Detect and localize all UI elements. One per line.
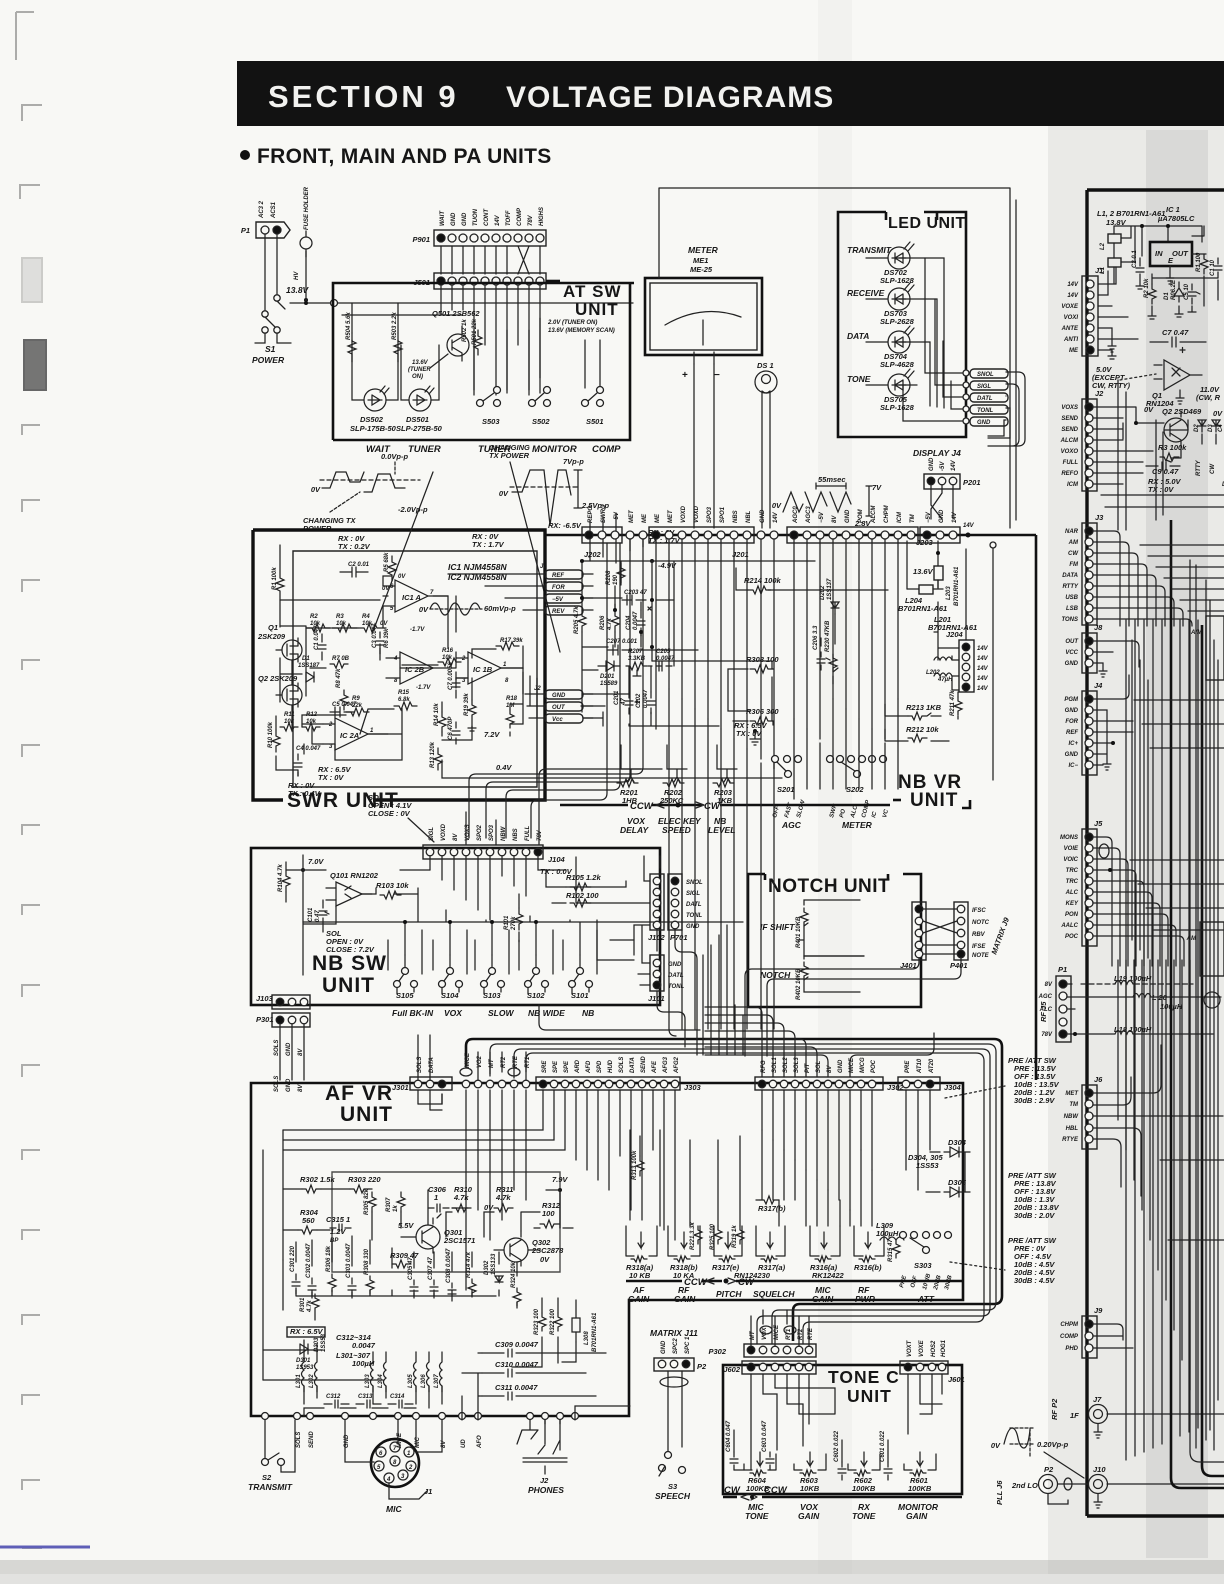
resistor R18 1M <box>506 696 518 728</box>
svg-text:ME: ME <box>642 513 648 523</box>
svg-text:IF SHIFT: IF SHIFT <box>760 922 795 932</box>
potentiometer R602 RX TONE <box>848 1452 880 1493</box>
svg-text:NOTC: NOTC <box>972 920 990 926</box>
connector P701 <box>668 874 703 942</box>
capacitor C205 0.0047 <box>656 649 675 671</box>
connector J202 <box>582 504 622 543</box>
svg-text:GND: GND <box>929 457 935 471</box>
coax jack J7 <box>1050 1395 1224 1438</box>
wire 13.8V rail <box>1114 224 1202 283</box>
LED DS704 DATA <box>847 326 930 406</box>
svg-text:PWR: PWR <box>855 1294 876 1304</box>
svg-text:R102 100: R102 100 <box>566 891 599 900</box>
partial circle right edge <box>1204 992 1220 1008</box>
svg-text:RK12422: RK12422 <box>812 1271 845 1280</box>
IF SHIFT label <box>760 922 795 932</box>
svg-text:TX : 0V: TX : 0V <box>736 729 762 738</box>
resistor R503 2.2k <box>392 312 402 362</box>
svg-text:ICM: ICM <box>897 511 903 523</box>
svg-text:SEND: SEND <box>1061 416 1078 422</box>
svg-text:8V: 8V <box>832 515 838 523</box>
capacitor C311 0.0047 <box>482 1383 596 1400</box>
partial component box right edge B <box>1186 922 1224 976</box>
svg-text:C7 0.47: C7 0.47 <box>1162 328 1189 337</box>
svg-text:C1 0.047: C1 0.047 <box>314 625 320 650</box>
resistor R3 10k <box>332 614 357 632</box>
svg-text:AFO: AFO <box>477 1435 483 1449</box>
svg-text:TRC: TRC <box>1066 879 1079 885</box>
FET Q1 2SK209 <box>257 623 302 662</box>
svg-text:GND: GND <box>462 212 468 226</box>
potentiometer R604 MIC TONE <box>744 1452 776 1493</box>
capacitor C2 0.1 <box>1132 250 1144 289</box>
svg-text:PLL J6: PLL J6 <box>995 1480 1004 1505</box>
svg-text:J7: J7 <box>1093 1395 1102 1404</box>
svg-text:MATRIX J11: MATRIX J11 <box>650 1328 698 1338</box>
svg-text:R401 10KB: R401 10KB <box>796 916 802 948</box>
svg-text:Q101 RN1202: Q101 RN1202 <box>330 871 379 880</box>
svg-text:C207 0.001: C207 0.001 <box>606 639 638 645</box>
svg-text:IC−: IC− <box>1068 763 1078 769</box>
svg-text:TONE: TONE <box>852 1511 876 1521</box>
waveform changing TX power (middle) <box>489 443 610 652</box>
svg-text:8V: 8V <box>453 833 459 841</box>
svg-text:AALC: AALC <box>1060 923 1078 929</box>
svg-text:TRANSMIT: TRANSMIT <box>847 245 892 255</box>
diodes D304 D305 <box>908 1138 970 1197</box>
svg-text:IC 2A: IC 2A <box>340 731 359 740</box>
AT SW internal wires <box>342 285 540 395</box>
svg-text:2: 2 <box>408 1465 413 1471</box>
svg-text:78V: 78V <box>537 829 543 841</box>
svg-text:SLOW: SLOW <box>488 1008 514 1018</box>
svg-text:C4: C4 <box>1218 424 1224 432</box>
svg-text:VOXO: VOXO <box>1061 449 1079 455</box>
svg-text:R211 47k: R211 47k <box>950 690 956 716</box>
svg-text:P901: P901 <box>412 235 430 244</box>
svg-text:S102: S102 <box>527 991 545 1000</box>
svg-text:14V: 14V <box>773 511 779 523</box>
potentiometer R601 MONITOR GAIN <box>904 1452 936 1493</box>
svg-text:SPE: SPE <box>564 1060 570 1073</box>
svg-text:MET: MET <box>629 509 635 523</box>
svg-text:R230 47KB: R230 47KB <box>825 620 831 652</box>
svg-text:AM: AM <box>1068 540 1079 546</box>
note RX TX <box>1148 477 1182 494</box>
svg-text:0V: 0V <box>398 574 406 580</box>
LED UNIT box <box>838 212 966 437</box>
svg-text:(TUNER: (TUNER <box>408 367 431 373</box>
svg-text:R503 2.2k: R503 2.2k <box>392 312 398 340</box>
svg-text:B701RN1-A61: B701RN1-A61 <box>954 566 960 606</box>
svg-text:PGM: PGM <box>1064 697 1079 703</box>
wire J101 route <box>539 1005 700 1030</box>
connector P2 (matrix J11) <box>654 1336 707 1451</box>
svg-text:P401: P401 <box>950 961 968 970</box>
svg-text:1F: 1F <box>1070 1411 1079 1420</box>
capacitor C306 1 <box>428 1185 449 1218</box>
svg-text:VOXS: VOXS <box>1061 405 1078 411</box>
svg-text:NOTE: NOTE <box>972 953 990 959</box>
svg-text:ANTI: ANTI <box>1063 337 1078 343</box>
op-amp IC1A <box>383 574 448 612</box>
svg-text:D1: D1 <box>1164 292 1170 300</box>
MIC connector J1 <box>345 1420 442 1514</box>
svg-text:SPEECH: SPEECH <box>655 1491 691 1501</box>
svg-text:C314: C314 <box>390 1394 405 1400</box>
svg-text:S503: S503 <box>482 417 500 426</box>
svg-text:AFG3: AFG3 <box>663 1056 669 1074</box>
diodes D2 D3 <box>1194 420 1224 432</box>
connector P201 <box>924 457 981 489</box>
svg-text:0V: 0V <box>311 485 321 494</box>
svg-text:60mVp-p: 60mVp-p <box>484 604 516 613</box>
wire weave J201 row to J104 <box>466 539 662 903</box>
svg-text:R301: R301 <box>300 1297 306 1312</box>
svg-text:R205 4.7k: R205 4.7k <box>574 606 580 634</box>
svg-text:SPO3: SPO3 <box>489 824 495 841</box>
svg-text:14V: 14V <box>951 459 957 471</box>
svg-text:UNIT: UNIT <box>340 1103 393 1126</box>
svg-text:47µH: 47µH <box>937 677 953 683</box>
resistor R305 82k <box>364 1188 376 1215</box>
svg-text:R325 100: R325 100 <box>710 1223 716 1250</box>
connector J501 <box>413 273 560 289</box>
pointer line changing TX <box>372 472 433 634</box>
connector J602 <box>723 1361 816 1374</box>
svg-text:GND: GND <box>845 509 851 523</box>
svg-text:GND: GND <box>686 924 700 930</box>
svg-text:TONE: TONE <box>847 374 871 384</box>
svg-text:SPEED: SPEED <box>662 825 691 835</box>
svg-text:GND: GND <box>451 212 457 226</box>
svg-text:HOG1: HOG1 <box>941 1339 947 1357</box>
inductor L201 coil <box>926 657 959 683</box>
svg-text:DELAY: DELAY <box>620 825 650 835</box>
svg-text:VOXE: VOXE <box>1061 304 1079 310</box>
svg-text:4: 4 <box>386 1477 391 1483</box>
right column extra bus lines <box>1101 380 1224 1448</box>
svg-text:8V: 8V <box>1045 982 1053 988</box>
connector J3 <box>1061 513 1192 626</box>
svg-text:14V: 14V <box>977 686 989 692</box>
svg-text:DATL: DATL <box>686 902 702 908</box>
bottom caps row (C301 C302 R306 C303 C304 R308 R309) <box>290 1243 521 1306</box>
svg-text:GAIN: GAIN <box>906 1511 928 1521</box>
svg-text:J2: J2 <box>534 686 541 692</box>
potentiometer R317(e) PITCH <box>712 1226 771 1280</box>
switch S502 <box>529 318 551 426</box>
svg-text:L1, 2 B701RN1-A61: L1, 2 B701RN1-A61 <box>1097 209 1165 218</box>
transistor Q501 2SB562 <box>432 309 480 361</box>
svg-text:SRE: SRE <box>542 1060 548 1073</box>
resistors R323 R322 100 <box>534 1308 562 1335</box>
capacitor C604 0.047 <box>726 1420 744 1470</box>
svg-text:SLP-2628: SLP-2628 <box>880 317 915 326</box>
bus wire loop right of AF VR <box>466 1039 1002 1344</box>
capacitor C202 0.0047 <box>636 689 655 714</box>
svg-text:R213 1KB: R213 1KB <box>906 703 942 712</box>
waveform 55msec (right) <box>772 475 882 528</box>
diode D201 1S589 <box>598 661 620 687</box>
svg-text:PHD: PHD <box>1065 1346 1078 1352</box>
svg-text:CLOSE : 0V: CLOSE : 0V <box>368 809 411 818</box>
svg-text:RX : 6.5V: RX : 6.5V <box>290 1327 324 1336</box>
capacitor C101 0.47 <box>308 902 329 924</box>
svg-text:4.7k: 4.7k <box>453 1193 469 1202</box>
AT SW UNIT box <box>333 282 634 440</box>
svg-text:PITCH: PITCH <box>716 1289 742 1299</box>
svg-text:GND: GND <box>286 1042 292 1056</box>
svg-text:14V: 14V <box>495 214 501 226</box>
svg-text:C312: C312 <box>326 1394 341 1400</box>
svg-text:GND: GND <box>1065 708 1079 714</box>
svg-text:190: 190 <box>613 574 619 585</box>
capacitor C603 0.047 <box>762 1420 774 1470</box>
potentiometer R317(a) SQUELCH <box>756 1226 786 1272</box>
resistor R1 100k <box>272 545 284 627</box>
svg-text:C302 0.0047: C302 0.0047 <box>306 1243 312 1278</box>
svg-text:POC: POC <box>1065 934 1079 940</box>
zener D1 R06.2E <box>1164 279 1184 302</box>
resistor R208 190 <box>606 563 625 585</box>
connector P401 <box>950 902 968 970</box>
resistor R101 270k <box>504 908 523 931</box>
SWR output tags REF FOR -5V REV <box>448 564 593 615</box>
resistor R9 22k <box>346 696 369 716</box>
LED DS501 <box>396 345 443 433</box>
svg-text:SWRO: SWRO <box>601 504 607 523</box>
wire P1 to S1 <box>265 234 277 310</box>
svg-text:CW: CW <box>1068 551 1079 557</box>
svg-text:NB: NB <box>582 1008 594 1018</box>
svg-text:−5V: −5V <box>819 511 825 523</box>
svg-text:GND: GND <box>661 1340 667 1354</box>
svg-text:AF VR: AF VR <box>325 1082 393 1105</box>
svg-text:J1: J1 <box>540 564 547 570</box>
svg-text:R15: R15 <box>398 690 410 696</box>
SOL note top <box>368 793 434 842</box>
SWR internal wiring mesh <box>276 576 782 778</box>
svg-text:J2: J2 <box>1095 389 1104 398</box>
svg-text:ARD: ARD <box>575 1059 581 1074</box>
resistor R205 4.7k <box>574 606 586 634</box>
svg-text:30dB : 4.5V: 30dB : 4.5V <box>1014 1276 1055 1285</box>
AF VR internal vertical wires from rows <box>263 1090 930 1380</box>
svg-text:TX : 0.4V: TX : 0.4V <box>288 789 321 798</box>
J2 wires <box>1093 407 1216 484</box>
resistor R312 100 <box>540 1201 561 1228</box>
AF VR mid mesh wires <box>283 1189 573 1308</box>
svg-text:100: 100 <box>542 1209 555 1218</box>
bottom pin labels <box>296 1431 483 1449</box>
svg-text:VOIC: VOIC <box>1063 857 1078 863</box>
svg-text:1: 1 <box>434 1193 438 1202</box>
svg-text:DATA: DATA <box>847 331 869 341</box>
svg-text:AGC: AGC <box>781 820 802 830</box>
resistor R310 4.7k <box>452 1185 473 1212</box>
svg-text:OUT: OUT <box>1065 639 1079 645</box>
svg-text:S2: S2 <box>262 1473 272 1482</box>
svg-text:250KC: 250KC <box>659 796 684 805</box>
svg-text:C1 10: C1 10 <box>1210 259 1216 276</box>
resistor R3 100k <box>1158 443 1187 461</box>
connector P901 <box>412 207 546 246</box>
svg-text:NOTCH UNIT: NOTCH UNIT <box>768 876 890 897</box>
svg-text:OUT: OUT <box>1172 249 1189 258</box>
resistor R302 1.5k <box>300 1175 335 1193</box>
svg-text:13.6V (MEMORY SCAN): 13.6V (MEMORY SCAN) <box>548 328 615 334</box>
resistor R504 5.6k <box>346 312 356 362</box>
LED DS702 TRANSMIT <box>847 242 944 408</box>
svg-text:C4 0.047: C4 0.047 <box>296 746 321 752</box>
svg-text:µA7805LC: µA7805LC <box>1157 214 1195 223</box>
capacitor C310 0.0047 <box>482 1360 586 1377</box>
svg-text:C6 470P: C6 470P <box>448 716 454 740</box>
svg-text:R105 1.2k: R105 1.2k <box>566 873 601 882</box>
svg-text:FOR: FOR <box>552 585 565 591</box>
diode D1 1SS187 <box>298 656 320 682</box>
svg-text:IFSC: IFSC <box>972 908 986 914</box>
connector P301 <box>256 1013 310 1092</box>
inductor L2 <box>1100 234 1121 250</box>
svg-text:TUON: TUON <box>473 208 479 226</box>
svg-text:C206 3.3: C206 3.3 <box>813 625 819 650</box>
svg-text:AFG2: AFG2 <box>674 1056 680 1074</box>
svg-text:S104: S104 <box>441 991 459 1000</box>
svg-text:SIGL: SIGL <box>977 384 991 390</box>
wires P901 to J501 with crossover <box>441 246 540 274</box>
capacitor C3 0.047 <box>372 623 390 654</box>
inductor L306 <box>421 1352 429 1392</box>
svg-text:J103: J103 <box>256 994 274 1003</box>
svg-text:Vcc: Vcc <box>552 717 563 723</box>
svg-text:R502 1k: R502 1k <box>462 319 468 342</box>
svg-text:GND: GND <box>838 1059 844 1073</box>
fuse holder F1 <box>286 186 312 302</box>
svg-text:C2 0.1: C2 0.1 <box>1132 250 1138 268</box>
svg-text:D202: D202 <box>820 585 826 600</box>
svg-text:RF P2: RF P2 <box>1050 1398 1059 1420</box>
label L201 <box>928 615 977 632</box>
svg-text:CW: CW <box>724 1485 741 1496</box>
wire fuse to AT SW unit <box>290 251 633 307</box>
potentiometer R201 1HB <box>617 745 641 805</box>
svg-text:ALCM: ALCM <box>871 505 877 524</box>
connector J203b <box>920 509 960 543</box>
potentiometer R318(a) AF GAIN <box>626 1226 657 1280</box>
resistor R230 47KB <box>825 620 838 672</box>
svg-text:R2: R2 <box>310 614 318 620</box>
connector J304 <box>898 1058 962 1092</box>
svg-text:J602: J602 <box>723 1365 741 1374</box>
svg-text:RTTY: RTTY <box>1062 584 1079 590</box>
svg-text:IC 1B: IC 1B <box>473 665 493 674</box>
svg-text:S502: S502 <box>532 417 550 426</box>
svg-text:AT20: AT20 <box>929 1058 935 1074</box>
svg-text:UNIT: UNIT <box>910 790 958 811</box>
svg-text:30dB : 2.0V: 30dB : 2.0V <box>1014 1211 1055 1220</box>
svg-text:S3: S3 <box>668 1482 678 1491</box>
svg-text:NBL: NBL <box>746 510 752 523</box>
svg-text:R19 39k: R19 39k <box>464 693 470 716</box>
svg-text:CLOSE : 7.2V: CLOSE : 7.2V <box>326 945 375 954</box>
svg-text:TM: TM <box>910 513 916 523</box>
svg-text:TX : 0V: TX : 0V <box>1148 485 1174 494</box>
svg-text:AFD: AFD <box>586 1060 592 1074</box>
PRE/ATT SW note 1 <box>945 1056 1060 1105</box>
svg-text:TONL: TONL <box>977 408 994 414</box>
TONE C bottom labels <box>745 1502 939 1521</box>
svg-text:−5V: −5V <box>614 511 620 523</box>
transistor Q2 2SD469 <box>1144 405 1223 446</box>
svg-text:TONE: TONE <box>745 1511 769 1521</box>
inductor L301 <box>296 1352 304 1392</box>
svg-text:FM: FM <box>1069 562 1079 568</box>
svg-text:IC+: IC+ <box>1068 741 1078 747</box>
svg-text:C309 0.0047: C309 0.0047 <box>495 1340 539 1349</box>
svg-text:J301: J301 <box>392 1083 409 1092</box>
svg-text:C2 0.01: C2 0.01 <box>348 562 370 568</box>
AF VR inner board outline <box>332 1172 560 1272</box>
svg-text:IC 2B: IC 2B <box>405 665 425 674</box>
svg-text:14V: 14V <box>977 646 989 652</box>
note 5.5V <box>398 1221 414 1230</box>
svg-text:ANTE: ANTE <box>1061 326 1079 332</box>
resistor R13 120k <box>430 741 442 770</box>
note 5.0V except <box>1092 365 1156 390</box>
svg-text:7Vp-p: 7Vp-p <box>563 457 584 466</box>
svg-text:SLP-4628: SLP-4628 <box>880 360 915 369</box>
power mesh wires <box>1148 226 1218 319</box>
svg-text:-1.7V: -1.7V <box>416 685 431 691</box>
svg-text:−5V: −5V <box>926 511 932 523</box>
svg-text:GND: GND <box>977 420 991 426</box>
LED DS703 RECEIVE <box>847 283 937 407</box>
pins GND 14V <box>757 509 779 539</box>
transistor Q302 2SC2878 <box>504 1231 564 1266</box>
svg-text:14V: 14V <box>952 511 958 523</box>
svg-text:C315 1: C315 1 <box>326 1215 350 1224</box>
svg-text:IC 1: IC 1 <box>1166 205 1180 214</box>
resistor R19 39k <box>464 693 476 731</box>
svg-text:C601 0.022: C601 0.022 <box>880 1430 886 1462</box>
capacitor C7 0.0056 <box>448 662 460 698</box>
svg-text:FULL: FULL <box>1063 460 1079 466</box>
svg-text:GAIN: GAIN <box>798 1511 820 1521</box>
S201/S202 position labels <box>772 798 890 819</box>
svg-text:14V: 14V <box>1067 293 1079 299</box>
svg-text:(CW, R: (CW, R <box>1196 393 1221 402</box>
svg-text:R10 100k: R10 100k <box>268 721 274 748</box>
svg-text:UD: UD <box>461 1439 467 1448</box>
resistor R325 100 <box>710 1223 722 1250</box>
svg-text:R307: R307 <box>386 1197 392 1212</box>
svg-text:SEND: SEND <box>309 1431 315 1448</box>
svg-text:GND: GND <box>760 509 766 523</box>
NB SW bottom labels <box>392 1008 594 1018</box>
svg-text:DS502: DS502 <box>360 415 384 424</box>
svg-text:100µH: 100µH <box>876 1229 899 1238</box>
NOTCH label <box>760 970 791 980</box>
capacitor C201 47 <box>614 690 639 714</box>
SWR UNIT box <box>253 530 545 812</box>
IC labels <box>448 562 507 582</box>
resistor R102 100 <box>566 891 599 907</box>
svg-text:NBS: NBS <box>733 510 739 523</box>
note 1.2V <box>330 1227 346 1236</box>
svg-text:CW: CW <box>1210 463 1216 474</box>
